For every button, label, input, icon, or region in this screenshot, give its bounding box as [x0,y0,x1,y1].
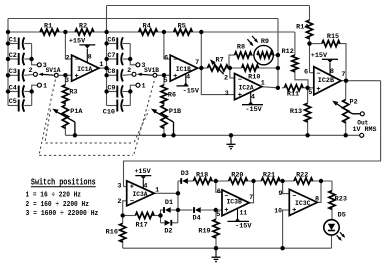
svg-text:-15V: -15V [235,223,252,231]
svg-text:R6: R6 [168,92,176,100]
svg-text:C10: C10 [103,108,115,116]
svg-text:1: 1 [261,80,265,88]
svg-text:10: 10 [274,208,282,215]
svg-text:R14: R14 [296,23,308,31]
svg-text:R18: R18 [196,172,208,180]
svg-text:SV1A: SV1A [46,67,61,74]
svg-text:IC1B: IC1B [176,66,191,74]
svg-text:+: + [173,73,177,81]
svg-text:R2: R2 [79,23,87,31]
svg-text:1 = 16 ÷ 220 Hz: 1 = 16 ÷ 220 Hz [26,191,82,199]
svg-text:IC3C: IC3C [295,200,311,208]
svg-text:7: 7 [249,194,253,202]
svg-text:P1B: P1B [169,108,181,116]
svg-text:R7: R7 [216,56,224,64]
svg-text:R17: R17 [135,222,147,230]
svg-text:R4: R4 [143,23,151,31]
svg-text:−: − [74,57,78,65]
svg-text:R1: R1 [44,23,52,31]
svg-text:D4: D4 [193,214,201,222]
svg-text:-15V: -15V [183,87,200,95]
svg-text:+: + [316,86,320,94]
svg-text:−: − [292,193,296,201]
svg-text:6: 6 [164,54,168,62]
svg-text:R8: R8 [237,43,245,51]
svg-text:R13: R13 [290,108,302,116]
svg-text:+15V: +15V [311,52,328,60]
svg-text:+: + [224,207,228,215]
svg-text:D3: D3 [181,170,189,178]
svg-text:1: 1 [43,82,47,90]
svg-text:C7: C7 [107,52,115,60]
svg-text:+15V: +15V [134,168,151,176]
svg-text:Switch positions: Switch positions [31,177,96,187]
svg-text:8: 8 [330,68,334,76]
svg-text:4: 4 [251,94,255,102]
svg-text:3: 3 [225,90,229,98]
svg-text:C9: C9 [107,84,115,92]
svg-text:5: 5 [163,77,167,85]
svg-text:+: + [238,92,242,100]
svg-text:R15: R15 [327,33,339,41]
svg-text:7: 7 [341,71,345,79]
svg-text:P1A: P1A [70,108,83,116]
svg-text:−: − [316,71,320,79]
svg-text:C1: C1 [9,36,17,44]
svg-text:1V RMS: 1V RMS [353,126,377,134]
svg-text:R5: R5 [178,23,186,31]
svg-text:3 = 1600 ÷ 22000 Hz: 3 = 1600 ÷ 22000 Hz [26,210,99,218]
svg-text:C2: C2 [9,52,17,60]
svg-text:R11: R11 [287,91,299,99]
svg-text:+: + [292,207,296,215]
svg-text:1: 1 [142,82,146,90]
svg-text:R3: R3 [69,88,77,96]
svg-text:2 = 160 ÷ 2200 Hz: 2 = 160 ÷ 2200 Hz [26,201,90,209]
svg-text:2: 2 [66,54,70,62]
svg-text:8: 8 [88,54,92,62]
svg-text:IC3B: IC3B [226,199,242,207]
svg-text:C8: C8 [107,68,115,76]
svg-text:C6: C6 [107,36,115,44]
svg-text:4: 4 [143,182,147,190]
svg-text:D2: D2 [164,227,172,235]
svg-text:R9: R9 [261,38,269,46]
svg-text:2: 2 [29,67,33,75]
svg-text:D5: D5 [338,212,346,220]
svg-text:−: − [173,57,177,65]
svg-text:D1: D1 [165,199,173,207]
svg-text:−: − [238,76,242,84]
svg-text:C3: C3 [9,68,17,76]
svg-text:R19: R19 [198,227,210,235]
svg-text:R10: R10 [248,73,260,81]
svg-text:7: 7 [195,59,199,67]
svg-text:2: 2 [224,74,228,82]
svg-text:IC1A: IC1A [77,66,93,74]
svg-text:4: 4 [186,74,190,82]
svg-text:R21: R21 [263,172,275,180]
svg-text:C4: C4 [9,84,17,92]
svg-text:2: 2 [127,67,131,75]
svg-text:1: 1 [155,187,159,195]
svg-text:−: − [224,193,228,201]
svg-text:2: 2 [117,198,121,206]
svg-text:9: 9 [278,190,282,198]
svg-text:R12: R12 [282,48,294,56]
svg-text:P2: P2 [350,99,358,107]
svg-text:8: 8 [315,195,319,203]
svg-text:5: 5 [216,211,220,219]
svg-text:SV1B: SV1B [144,67,159,74]
svg-text:R16: R16 [106,229,118,237]
svg-text:C5: C5 [9,98,17,106]
svg-text:+: + [74,73,78,81]
svg-text:IC3A: IC3A [133,191,149,199]
svg-text:6: 6 [304,68,308,76]
svg-text:11: 11 [239,209,247,216]
svg-text:R22: R22 [296,172,308,180]
svg-text:-15V: -15V [245,106,262,114]
svg-text:+15V: +15V [69,37,86,45]
svg-text:3: 3 [65,77,69,85]
svg-text:1: 1 [99,61,103,69]
svg-text:3: 3 [117,182,121,190]
svg-text:R20: R20 [231,172,243,180]
svg-text:R23: R23 [335,195,347,203]
svg-text:−: − [130,198,134,206]
svg-text:+: + [130,184,134,192]
svg-text:6: 6 [217,188,221,196]
svg-text:5: 5 [308,89,312,97]
